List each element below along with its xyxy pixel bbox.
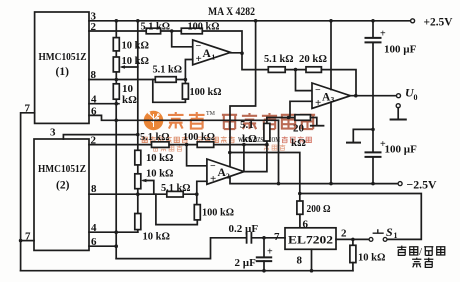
- svg-text:20: 20: [293, 123, 305, 135]
- svg-text:2: 2: [341, 228, 347, 240]
- terminal -2.5V: [398, 182, 402, 186]
- ground (A3 + 20k): [311, 125, 324, 127]
- svg-text:3: 3: [50, 127, 56, 139]
- resistor 100k (A2 + leg) vertical: [156, 194, 197, 224]
- terminal U0: [397, 94, 401, 98]
- svg-text:A: A: [203, 48, 212, 60]
- op-amp A2: [207, 159, 244, 184]
- svg-text:10 kΩ: 10 kΩ: [146, 168, 174, 180]
- wire chip2 column from rail: [137, 21, 139, 232]
- svg-text:(1): (1): [56, 66, 70, 78]
- wire A2 V- to -2.5V rail: [230, 177, 398, 184]
- svg-text:100 µF: 100 µF: [385, 144, 418, 156]
- wire U1 pin 7 to left rail: [21, 113, 35, 271]
- svg-text:+2.5V: +2.5V: [424, 15, 453, 29]
- svg-text:8: 8: [91, 69, 97, 81]
- svg-text:+: +: [210, 173, 216, 185]
- svg-text:HMC1051Z: HMC1051Z: [38, 163, 86, 175]
- svg-text:EL7202: EL7202: [288, 235, 333, 247]
- svg-text:5.1 kΩ: 5.1 kΩ: [140, 131, 170, 143]
- wire A3 V+ from +2.5 rail: [330, 21, 332, 90]
- svg-text:5.1 kΩ: 5.1 kΩ: [264, 53, 294, 65]
- small red watermark text row: [142, 136, 235, 142]
- resistor 10k (ladder U1 #3): [113, 84, 119, 99]
- node EL7202 pin2: [351, 238, 355, 242]
- wire 20k to small ground: [311, 118, 317, 126]
- capacitor C1 100uF (plus lead): [372, 21, 374, 38]
- svg-text:MA X 4282: MA X 4282: [208, 4, 255, 18]
- resistor 5.1k (U2 pin2 to A2 inv): [152, 142, 170, 148]
- svg-text:7: 7: [274, 231, 280, 243]
- resistor 100k (A1 + leg) vertical: [153, 80, 186, 103]
- svg-text:200 Ω: 200 Ω: [307, 203, 331, 215]
- wire cap midpoint ground tap: [353, 129, 373, 142]
- wire A2 inverting input: [187, 145, 207, 166]
- ground (supply midpoint): [347, 142, 360, 144]
- wire A1 output: [231, 53, 269, 70]
- node ladder1 taps: [115, 78, 119, 82]
- wire A2 output loop to 5.1k vertical: [244, 145, 267, 172]
- svg-text:6: 6: [303, 219, 309, 231]
- wire A1 inverting input: [172, 31, 193, 47]
- svg-text:−: −: [196, 41, 202, 52]
- svg-text:S: S: [386, 225, 393, 239]
- wire V+ drop from rail to A2: [230, 21, 256, 167]
- node A2 +: [195, 192, 199, 196]
- wire U1 pin 8 row: [89, 79, 185, 81]
- svg-text:10 kΩ: 10 kΩ: [146, 152, 174, 164]
- node U2 pin3: [136, 133, 140, 137]
- wire A3 inverting input: [296, 70, 313, 91]
- svg-text:+: +: [380, 29, 386, 40]
- svg-text:−2.5V: −2.5V: [407, 178, 437, 192]
- wire U2 pin 4 row: [89, 231, 138, 233]
- svg-text:+: +: [380, 139, 386, 150]
- svg-text:8: 8: [297, 255, 303, 267]
- node A2 fb: [242, 143, 246, 147]
- wire pin 2 row of U1: [89, 31, 242, 53]
- resistor 5.1k (U2 pin8 to A2+): [167, 191, 183, 197]
- wire A3 output to U0: [350, 95, 396, 97]
- svg-text:100 µF: 100 µF: [384, 44, 417, 56]
- svg-text:+: +: [267, 247, 273, 258]
- node reference row: [114, 119, 118, 123]
- svg-text:4: 4: [91, 222, 97, 234]
- svg-text:/: /: [419, 246, 423, 258]
- IC U2 HMC1051Z (2) box: [34, 139, 89, 250]
- svg-text:4: 4: [91, 94, 97, 106]
- wire U2 pin 6 row: [89, 245, 116, 247]
- svg-text:1: 1: [212, 53, 216, 62]
- terminal output ground: [396, 104, 400, 108]
- resistor ladder U1: 10k: [115, 21, 117, 104]
- svg-text:2: 2: [91, 134, 97, 146]
- watermark logo circle: [144, 111, 164, 131]
- wire 5.1k to 20k node: [285, 69, 306, 71]
- svg-text:10 kΩ: 10 kΩ: [122, 55, 150, 67]
- op-amp A1: [193, 40, 231, 65]
- wire A1 non-inverting input: [185, 60, 192, 80]
- wire A3 V- to -2.5 rail: [330, 102, 332, 183]
- wire row B (driver supply branch): [230, 153, 300, 194]
- svg-text:100 kΩ: 100 kΩ: [190, 86, 222, 98]
- node A3 inv: [294, 68, 298, 72]
- svg-text:kΩ: kΩ: [122, 94, 137, 106]
- node A1 out: [240, 51, 244, 55]
- svg-text:20 kΩ: 20 kΩ: [299, 53, 327, 65]
- wire U2 pin 7: [21, 240, 34, 242]
- terminal +2.5V: [411, 19, 415, 23]
- wire U2 pin 2 row: [89, 144, 267, 146]
- svg-text:7: 7: [25, 103, 31, 115]
- svg-text:+: +: [315, 97, 321, 109]
- wire EL7202 pin 8 to rail: [311, 249, 313, 270]
- IC U3 EL7202 box: [285, 228, 336, 250]
- svg-text:kΩ: kΩ: [291, 137, 306, 149]
- svg-text:100 kΩ: 100 kΩ: [183, 131, 215, 143]
- wire bottom ground rail: [21, 270, 353, 272]
- switch S1: [369, 238, 373, 242]
- svg-text:10 kΩ: 10 kΩ: [358, 252, 386, 264]
- wire A2 non-inverting input: [197, 181, 207, 194]
- wire A2 feedback vertical: [243, 145, 245, 172]
- resistor 10k (EL7202 pin2): [352, 239, 354, 245]
- wire 20k lead / node: [267, 117, 295, 119]
- svg-text:5.1 kΩ: 5.1 kΩ: [161, 182, 191, 194]
- wire +2.5V rail (pin 3 of U1): [89, 20, 411, 22]
- node A2 out: [265, 143, 269, 147]
- wire U2 pin 8 row: [89, 193, 197, 195]
- resistor 100k (A2 feedback): [197, 142, 214, 148]
- svg-text:0.2 µF: 0.2 µF: [229, 223, 259, 235]
- svg-text:2 µF: 2 µF: [235, 257, 257, 269]
- node dots on bottom rail: [262, 269, 266, 273]
- svg-text:2: 2: [226, 172, 230, 181]
- IC U1 HMC1051Z (1) box: [35, 12, 89, 123]
- svg-text:+: +: [196, 53, 202, 65]
- svg-text:6: 6: [91, 236, 97, 248]
- capacitor C2 100uF: [366, 151, 381, 153]
- op-amp A3: [312, 83, 350, 108]
- svg-text:1: 1: [394, 231, 398, 240]
- resistor 20k (A3 + leg): [295, 115, 311, 121]
- resistor 5.1k (U1 pin2 to A1 inv): [146, 28, 160, 34]
- wire U1 pin 4 row: [89, 103, 119, 105]
- wire 0.2uF to EL7202 pin 7: [251, 237, 285, 239]
- node U2 pin7: [19, 239, 23, 243]
- label reset/set switch (Chinese): [397, 246, 445, 268]
- svg-text:7: 7: [25, 231, 31, 243]
- wire bottom path to 0.2uF: [116, 238, 246, 259]
- wiper arrow into ladder U1 #2: [123, 66, 138, 68]
- wire reference drop to -2.5 rail: [278, 120, 280, 183]
- wire cap column: [372, 42, 374, 152]
- resistor 5.1k (U1 pin8 to A1+): [155, 77, 176, 83]
- wire U2 pin 3: [63, 135, 137, 139]
- node A1 inv: [170, 29, 174, 33]
- resistor 10k (ladder U2 #1): [135, 150, 141, 165]
- svg-text:−: −: [210, 161, 216, 172]
- svg-text:kΩ: kΩ: [242, 133, 257, 145]
- resistor 10k (ladder U2 #2): [135, 174, 141, 189]
- svg-text:3: 3: [331, 95, 335, 104]
- wire A3 feedback: [321, 70, 356, 96]
- wire U1 pin 6 jog: [89, 115, 116, 120]
- resistor 100k (A1 feedback): [181, 28, 202, 34]
- ground (output): [391, 119, 406, 121]
- node A1 +: [184, 78, 188, 82]
- svg-text:TM: TM: [206, 111, 216, 117]
- wire long reference row to A3 + network: [116, 119, 278, 121]
- svg-text:8: 8: [91, 183, 97, 195]
- node V+ branch: [228, 151, 232, 155]
- wiper arrow into ladder U2 #2: [144, 181, 154, 195]
- node EL7202 pin6: [298, 192, 302, 196]
- svg-text:5.1 kΩ: 5.1 kΩ: [153, 64, 183, 76]
- svg-text:100 kΩ: 100 kΩ: [202, 207, 234, 219]
- capacitor C3 0.2uF: [246, 233, 248, 243]
- wire common column (U1 pin4 down): [115, 104, 117, 259]
- resistor 10k (ladder U2 #3): [135, 214, 141, 230]
- 电子市场网 dark red chars: [222, 113, 315, 129]
- node 2uF top: [262, 236, 266, 240]
- svg-text:10 kΩ: 10 kΩ: [143, 231, 171, 243]
- wire A3 non-inverting input: [290, 101, 312, 117]
- svg-text:(2): (2): [56, 180, 70, 192]
- svg-text:10 kΩ: 10 kΩ: [122, 40, 150, 52]
- svg-text:HMC1051Z: HMC1051Z: [39, 51, 87, 63]
- svg-text:2: 2: [91, 21, 97, 33]
- node A3 +: [287, 116, 291, 120]
- svg-text:5.1 kΩ: 5.1 kΩ: [141, 21, 171, 33]
- resistor 5.1k vertical (A2 out to A3+): [266, 118, 268, 145]
- node cap midpoint: [371, 128, 375, 132]
- 维库 big orange chars: [168, 112, 205, 129]
- wire EL7202 pin 2 row: [336, 238, 369, 240]
- node ladder2 tap: [136, 192, 140, 196]
- node A2 inv: [185, 143, 189, 147]
- node dots on +2.5 rail: [115, 19, 119, 23]
- resistor 10k (ladder U1 #2): [113, 57, 119, 72]
- svg-text:6: 6: [91, 105, 97, 117]
- svg-text:100 kΩ: 100 kΩ: [188, 21, 220, 33]
- resistor 5.1k (A1 out to A3-): [268, 67, 285, 73]
- node dots on -2.5 rail: [277, 182, 281, 186]
- svg-text:5.1: 5.1: [240, 119, 254, 131]
- capacitor C4 2uF: [263, 238, 265, 257]
- wire EL7202 pin6 node: [300, 194, 422, 240]
- node U2 pin4 column: [114, 230, 118, 234]
- node A3 out: [354, 94, 358, 98]
- resistor 20k (A3 feedback): [306, 67, 321, 73]
- svg-text:0: 0: [414, 93, 418, 102]
- svg-text:−: −: [315, 85, 321, 96]
- resistor 200ohm: [299, 194, 301, 202]
